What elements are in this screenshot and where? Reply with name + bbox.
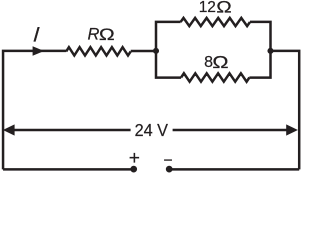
wire [271, 51, 300, 169]
svg-text:+: + [129, 148, 140, 169]
voltage arrow shaft right [173, 129, 288, 132]
wire [131, 50, 156, 53]
voltage arrowhead right [286, 124, 298, 135]
svg-text:I: I [32, 23, 40, 46]
svg-text:Ω: Ω [212, 53, 228, 72]
wire [169, 168, 299, 171]
voltage arrow shaft left [12, 129, 131, 132]
resistor R3 8ohm [181, 73, 249, 81]
svg-text:Ω: Ω [99, 26, 115, 45]
svg-text:R: R [88, 26, 100, 44]
node junction right [267, 48, 273, 54]
current arrow [33, 46, 45, 55]
wire [249, 51, 270, 78]
battery terminal positive dot [130, 166, 137, 173]
node junction left [153, 48, 159, 54]
voltage arrowhead left [3, 124, 15, 135]
wire [156, 51, 181, 78]
battery terminal negative dot [166, 166, 173, 173]
svg-text:12: 12 [199, 0, 216, 16]
svg-text:−: − [163, 153, 172, 170]
wire [250, 22, 271, 51]
wire [156, 22, 181, 51]
resistor R1 [66, 47, 131, 55]
svg-text:Ω: Ω [216, 0, 232, 17]
wire [3, 168, 134, 171]
svg-text:24 V: 24 V [135, 120, 169, 140]
resistor R2 12ohm [181, 18, 250, 26]
wire [3, 51, 66, 169]
